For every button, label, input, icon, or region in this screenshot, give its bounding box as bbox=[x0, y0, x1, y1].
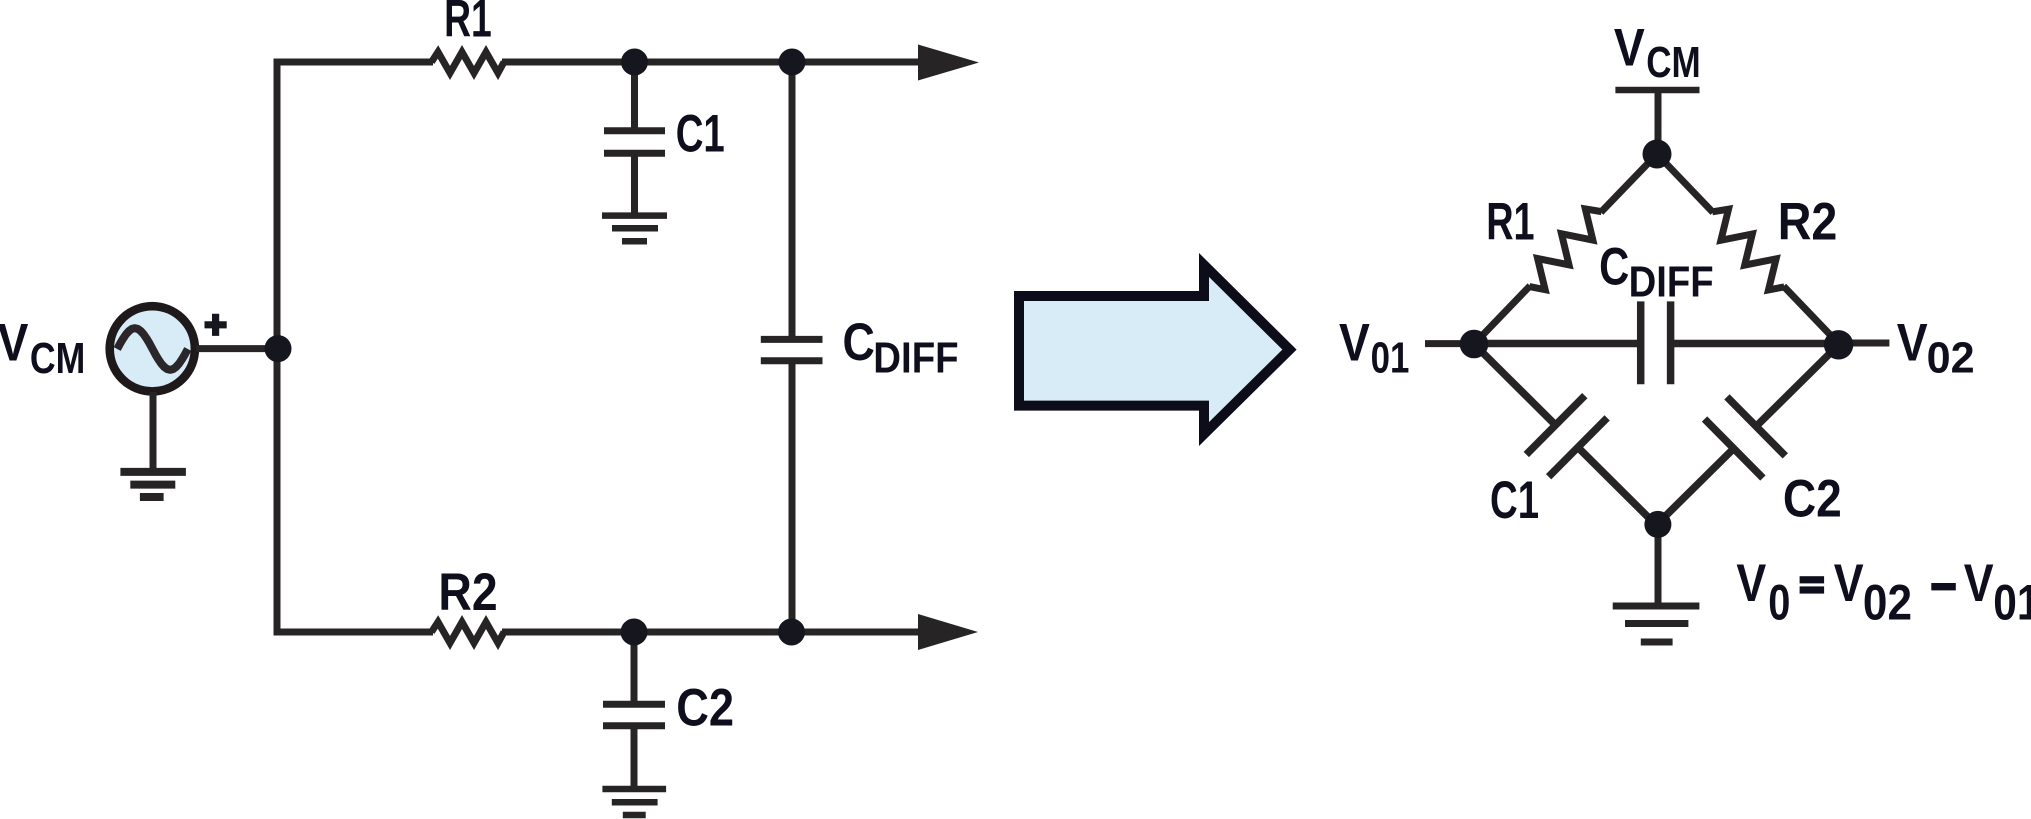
node D C2 junction bbox=[621, 619, 648, 646]
node C CDIFF top junction bbox=[779, 49, 806, 76]
node B C1 junction bbox=[621, 49, 648, 76]
node top (bridge VCM) bbox=[1643, 140, 1672, 169]
svg-text:C2: C2 bbox=[676, 678, 734, 737]
ground (source) bbox=[120, 472, 185, 497]
wire source to bus bbox=[196, 345, 278, 352]
plus sign bbox=[205, 314, 227, 336]
svg-text:DIFF: DIFF bbox=[873, 333, 958, 382]
wire bottom node to ground bbox=[1655, 524, 1662, 606]
resistor R2 bbox=[432, 622, 505, 643]
svg-text:CM: CM bbox=[30, 335, 85, 383]
label VCM (bridge top) bbox=[1614, 18, 1701, 87]
svg-text:01: 01 bbox=[1993, 574, 2031, 630]
svg-text:V: V bbox=[1964, 555, 1994, 613]
svg-text:CM: CM bbox=[1646, 38, 1700, 87]
svg-text:C1: C1 bbox=[676, 103, 725, 163]
wire top rail left bbox=[274, 59, 434, 66]
svg-text:02: 02 bbox=[1927, 334, 1975, 382]
node E CDIFF bottom junction bbox=[778, 619, 805, 646]
wire V02 stub bbox=[1839, 340, 1890, 347]
source VCM AC symbol U1 bbox=[110, 306, 195, 391]
svg-text:V: V bbox=[1834, 555, 1864, 613]
wire top rail right bbox=[502, 59, 925, 66]
svg-text:C: C bbox=[1599, 238, 1629, 297]
svg-text:01: 01 bbox=[1371, 333, 1410, 382]
label CDIFF (bridge) bbox=[1599, 238, 1714, 306]
block arrow (transform) bbox=[1019, 265, 1290, 434]
capacitor C2 (bridge bottom-right edge) bbox=[1626, 315, 1867, 555]
resistor R1 bbox=[432, 52, 505, 73]
svg-text:V: V bbox=[1897, 312, 1928, 372]
label CDIFF (left) bbox=[843, 313, 959, 381]
svg-text:0: 0 bbox=[1768, 574, 1790, 630]
node V02 bbox=[1824, 330, 1853, 359]
svg-text:R2: R2 bbox=[438, 562, 497, 622]
svg-text:C2: C2 bbox=[1783, 468, 1842, 528]
wire VCM to top node bbox=[1655, 90, 1662, 154]
capacitor CDIFF (bridge horizontal) bbox=[1474, 301, 1839, 384]
ground (C1) bbox=[602, 216, 667, 242]
svg-text:V: V bbox=[0, 312, 28, 372]
label VCM (source) bbox=[0, 312, 85, 382]
resistor R2 (bridge top-right edge) bbox=[1647, 145, 1849, 354]
capacitor C2 bbox=[603, 632, 665, 789]
svg-text:DIFF: DIFF bbox=[1629, 257, 1714, 306]
capacitor C1 bbox=[604, 62, 665, 216]
capacitor C1 (bridge bottom-left edge) bbox=[1445, 315, 1686, 555]
terminal VCM bar bbox=[1615, 87, 1699, 94]
ground (bridge) bbox=[1613, 606, 1700, 642]
svg-text:R1: R1 bbox=[444, 0, 492, 48]
svg-text:V: V bbox=[1614, 18, 1645, 78]
resistor R1 (bridge top-left edge) bbox=[1464, 145, 1666, 354]
svg-text:V: V bbox=[1339, 312, 1370, 372]
arrow output bottom bbox=[918, 614, 978, 650]
arrow output top bbox=[918, 45, 979, 81]
capacitor CDIFF (left circuit) bbox=[761, 62, 823, 632]
svg-text:R1: R1 bbox=[1486, 191, 1534, 251]
label V02 bbox=[1897, 312, 1975, 382]
label V01 bbox=[1339, 312, 1409, 382]
node A input junction bbox=[265, 335, 292, 362]
wire vertical input bus bbox=[274, 59, 281, 636]
svg-text:R2: R2 bbox=[1778, 192, 1838, 251]
wire V01 stub bbox=[1425, 340, 1474, 347]
svg-text:C1: C1 bbox=[1490, 470, 1539, 530]
svg-text:V: V bbox=[1736, 555, 1766, 613]
svg-text:C: C bbox=[843, 313, 875, 371]
node V01 bbox=[1460, 330, 1489, 359]
ground (C2) bbox=[602, 789, 666, 815]
wire bottom rail left bbox=[274, 629, 434, 636]
svg-text:02: 02 bbox=[1863, 574, 1912, 630]
wire source to ground bbox=[150, 392, 157, 470]
wire bottom rail right bbox=[502, 629, 925, 636]
label equation V0 = V02 - V01 bbox=[1736, 555, 2031, 631]
node bottom (bridge) bbox=[1644, 511, 1671, 538]
